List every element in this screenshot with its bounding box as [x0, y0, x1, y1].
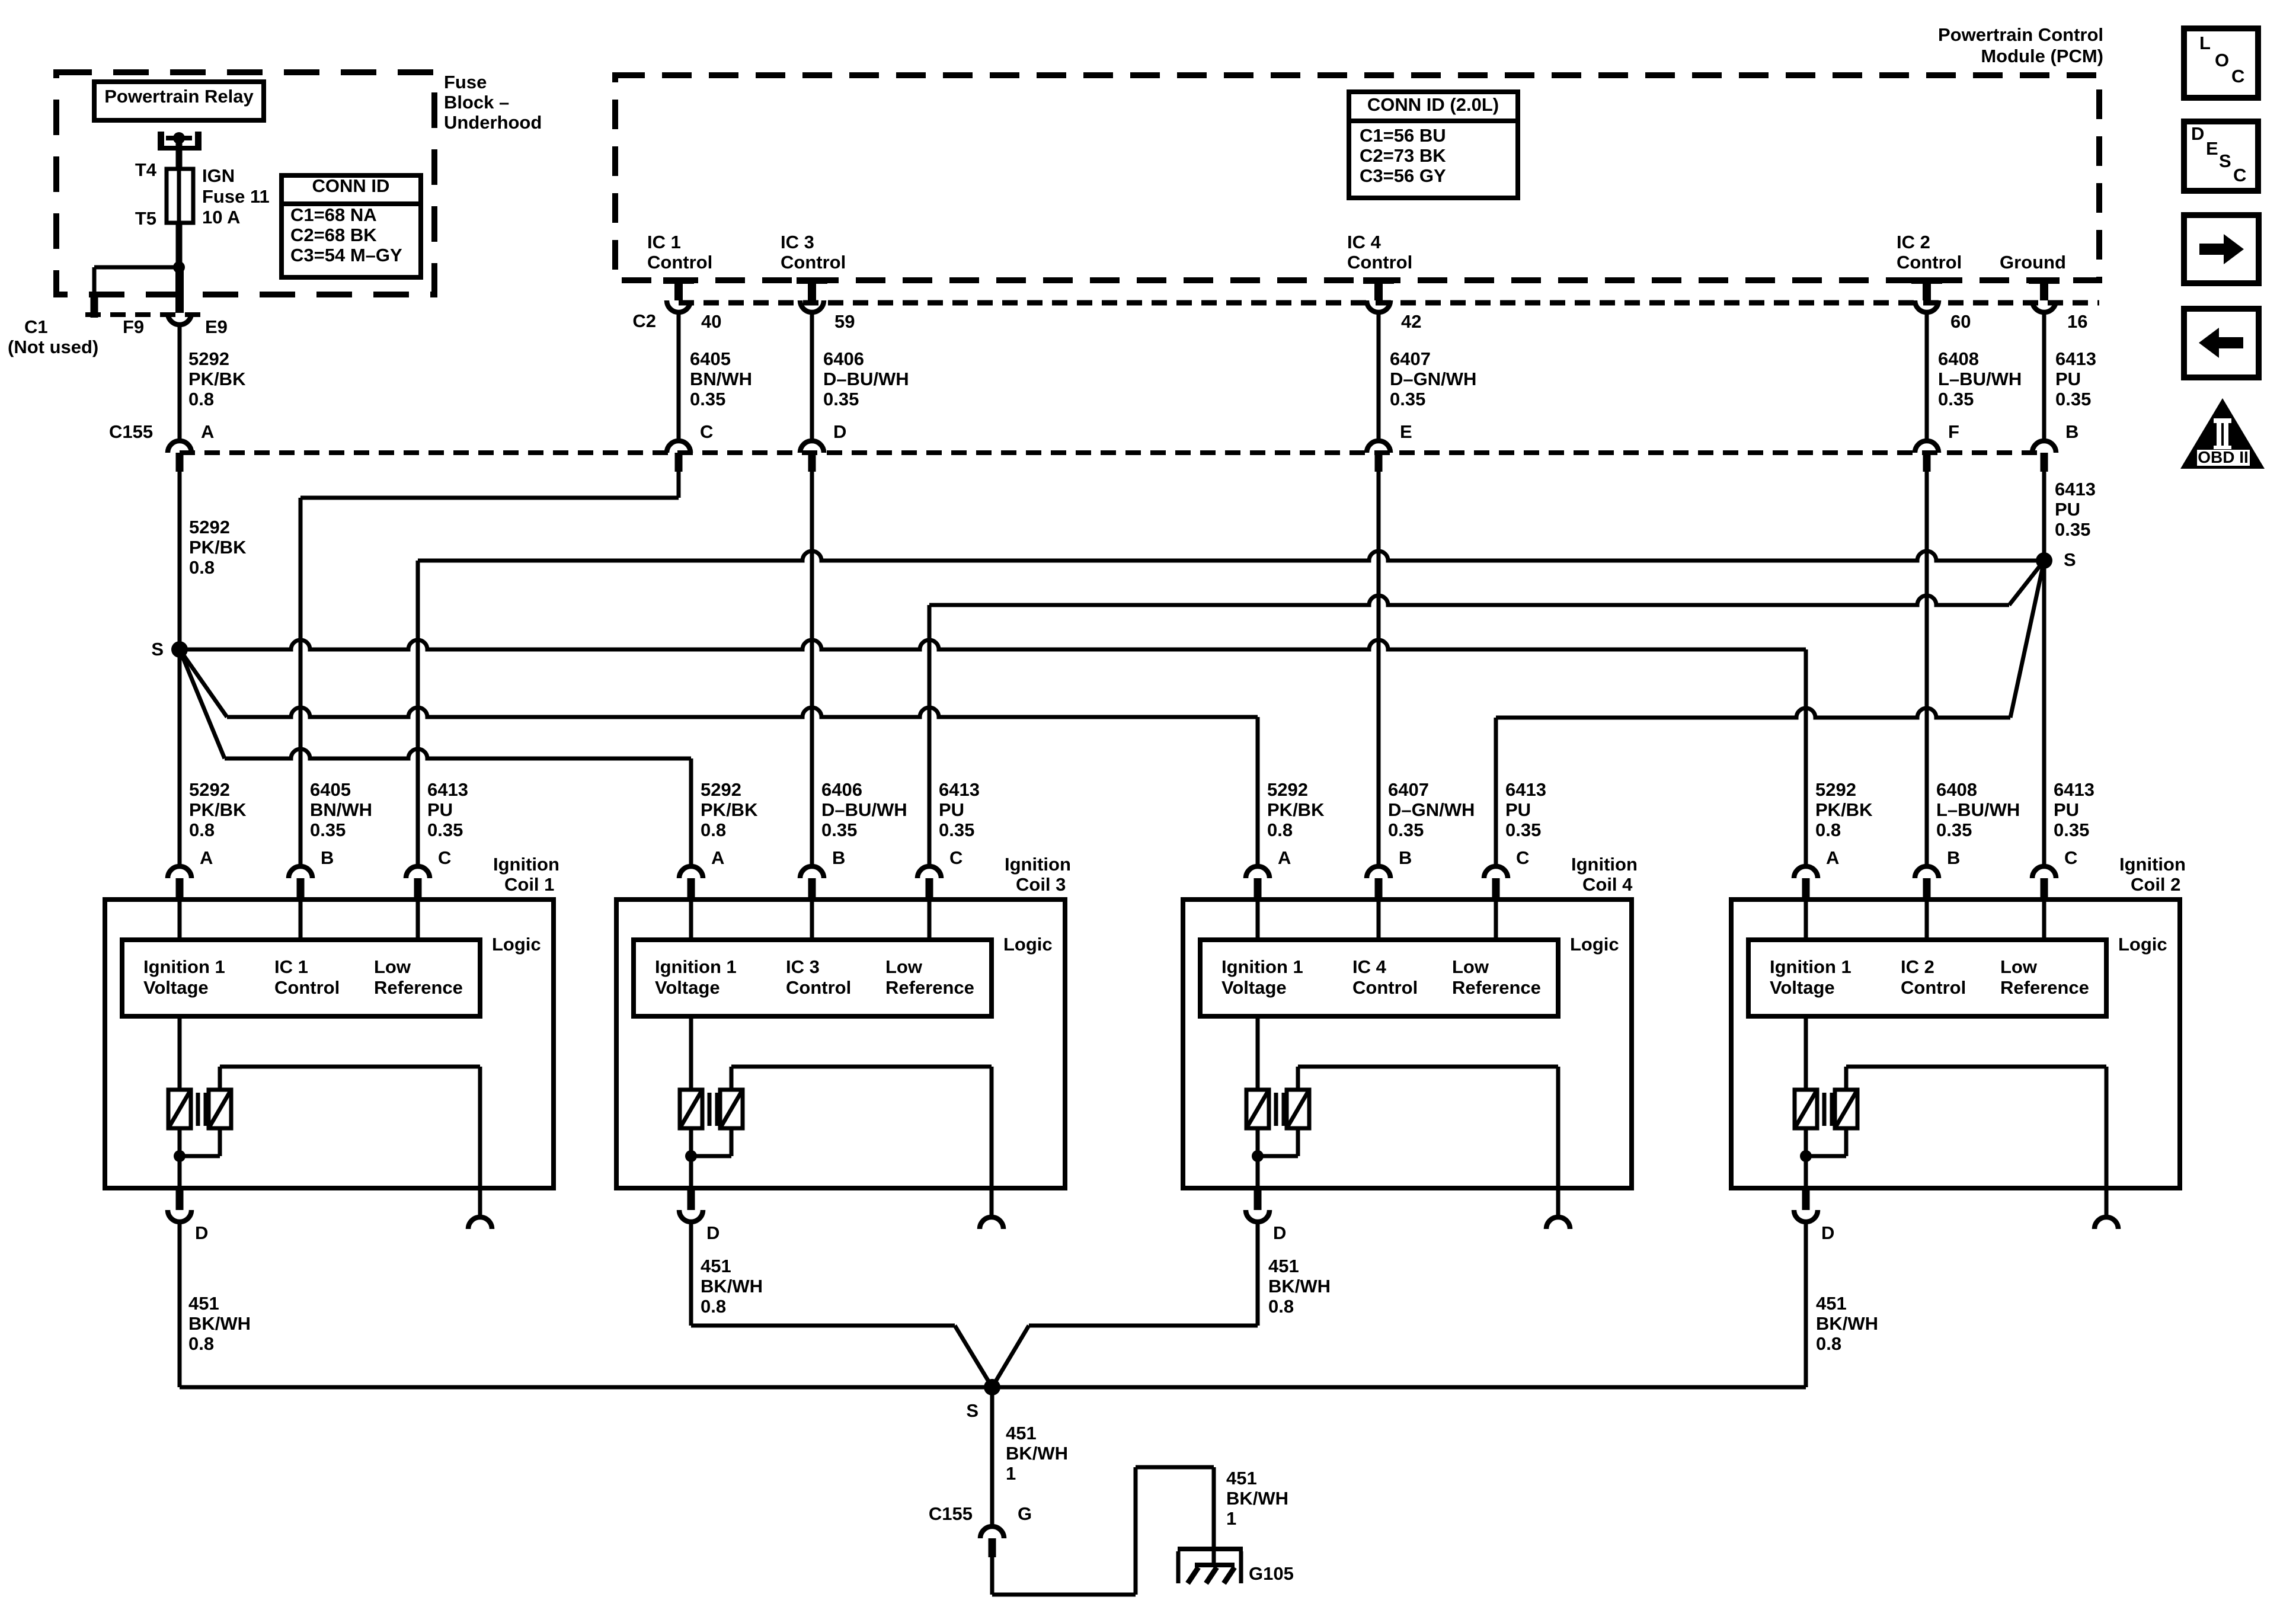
svg-text:S: S [2219, 151, 2231, 171]
svg-text:0.8: 0.8 [1267, 820, 1293, 840]
svg-text:Ignition: Ignition [2119, 854, 2186, 875]
svg-text:Ignition: Ignition [493, 854, 559, 875]
svg-text:PU: PU [939, 799, 964, 820]
svg-text:Ignition 1: Ignition 1 [655, 956, 737, 977]
svg-text:A: A [201, 421, 214, 442]
svg-text:B: B [1947, 847, 1960, 868]
svg-text:0.35: 0.35 [427, 820, 463, 840]
svg-text:6407: 6407 [1388, 779, 1429, 800]
svg-text:0.35: 0.35 [1505, 820, 1541, 840]
svg-text:6413: 6413 [2055, 348, 2096, 369]
svg-text:Logic: Logic [492, 934, 541, 955]
svg-text:D: D [1273, 1222, 1286, 1243]
svg-text:D: D [1821, 1222, 1834, 1243]
svg-text:PU: PU [1505, 799, 1531, 820]
svg-text:C: C [949, 847, 962, 868]
svg-text:Underhood: Underhood [444, 112, 542, 133]
svg-text:59: 59 [834, 311, 855, 332]
svg-text:Reference: Reference [1452, 977, 1541, 998]
svg-text:C2=68 BK: C2=68 BK [290, 225, 377, 245]
svg-text:Low: Low [2000, 956, 2038, 977]
svg-text:Coil 2: Coil 2 [2131, 874, 2180, 895]
svg-text:Logic: Logic [2118, 934, 2167, 955]
svg-text:60: 60 [1950, 311, 1971, 332]
svg-text:0.35: 0.35 [821, 820, 857, 840]
svg-text:C1: C1 [24, 316, 48, 337]
svg-text:Coil 3: Coil 3 [1016, 874, 1066, 895]
svg-text:C3=54 M–GY: C3=54 M–GY [290, 245, 402, 265]
svg-text:Reference: Reference [374, 977, 463, 998]
svg-text:Control: Control [1352, 977, 1418, 998]
svg-text:0.8: 0.8 [701, 820, 726, 840]
svg-text:Fuse 11: Fuse 11 [202, 186, 270, 207]
svg-text:PK/BK: PK/BK [1267, 799, 1325, 820]
svg-text:Voltage: Voltage [1770, 977, 1835, 998]
svg-text:0.35: 0.35 [690, 389, 725, 409]
svg-text:Control: Control [1347, 252, 1412, 273]
svg-text:0.8: 0.8 [189, 557, 215, 578]
svg-text:Ground: Ground [2000, 252, 2066, 273]
svg-text:D–GN/WH: D–GN/WH [1388, 799, 1475, 820]
svg-text:L–BU/WH: L–BU/WH [1936, 799, 2020, 820]
svg-text:6413: 6413 [427, 779, 468, 800]
svg-text:G: G [1018, 1503, 1032, 1524]
svg-text:D: D [2191, 123, 2204, 144]
svg-text:Low: Low [1452, 956, 1489, 977]
svg-text:OBD II: OBD II [2198, 448, 2249, 466]
svg-text:A: A [1826, 847, 1839, 868]
svg-text:451: 451 [1816, 1293, 1847, 1314]
svg-text:Control: Control [1901, 977, 1966, 998]
svg-text:6406: 6406 [821, 779, 862, 800]
svg-text:Fuse: Fuse [444, 72, 487, 92]
svg-text:1: 1 [1226, 1508, 1236, 1529]
svg-text:Voltage: Voltage [143, 977, 209, 998]
svg-text:Voltage: Voltage [1221, 977, 1287, 998]
svg-text:0.8: 0.8 [701, 1296, 726, 1317]
svg-text:BN/WH: BN/WH [690, 369, 752, 389]
svg-text:6406: 6406 [823, 348, 864, 369]
svg-text:T5: T5 [135, 208, 156, 229]
svg-text:BN/WH: BN/WH [310, 799, 372, 820]
svg-text:5292: 5292 [188, 348, 229, 369]
svg-text:Reference: Reference [885, 977, 974, 998]
svg-text:Control: Control [781, 252, 846, 273]
svg-text:0.8: 0.8 [189, 820, 215, 840]
svg-text:Logic: Logic [1003, 934, 1053, 955]
svg-text:PU: PU [2055, 499, 2080, 520]
svg-text:10 A: 10 A [202, 207, 240, 228]
svg-text:S: S [151, 639, 164, 660]
svg-text:(Not used): (Not used) [8, 337, 98, 357]
svg-text:5292: 5292 [189, 517, 230, 537]
svg-text:Reference: Reference [2000, 977, 2089, 998]
svg-text:0.35: 0.35 [2054, 820, 2089, 840]
svg-text:D–GN/WH: D–GN/WH [1390, 369, 1476, 389]
svg-text:451: 451 [1226, 1468, 1257, 1489]
svg-text:PK/BK: PK/BK [189, 537, 247, 558]
svg-text:0.8: 0.8 [1815, 820, 1841, 840]
svg-text:IC 1: IC 1 [274, 956, 308, 977]
svg-text:C1=68 NA: C1=68 NA [290, 204, 377, 225]
svg-text:IC 4: IC 4 [1352, 956, 1387, 977]
svg-text:CONN ID: CONN ID [312, 175, 390, 196]
svg-text:PU: PU [2054, 799, 2079, 820]
svg-text:A: A [1278, 847, 1291, 868]
svg-text:C: C [2231, 66, 2244, 87]
svg-text:C2=73 BK: C2=73 BK [1360, 145, 1446, 166]
svg-text:B: B [1399, 847, 1412, 868]
svg-text:IC 3: IC 3 [786, 956, 820, 977]
svg-text:C3=56 GY: C3=56 GY [1360, 165, 1446, 186]
svg-text:CONN ID (2.0L): CONN ID (2.0L) [1367, 94, 1499, 115]
svg-text:0.35: 0.35 [939, 820, 974, 840]
svg-text:BK/WH: BK/WH [701, 1276, 763, 1297]
svg-text:C: C [438, 847, 451, 868]
svg-text:Powertrain Control: Powertrain Control [1938, 24, 2103, 45]
svg-text:6413: 6413 [1505, 779, 1546, 800]
svg-text:Ignition 1: Ignition 1 [1221, 956, 1303, 977]
svg-text:Low: Low [885, 956, 923, 977]
svg-text:Coil 1: Coil 1 [504, 874, 554, 895]
svg-text:D: D [195, 1222, 208, 1243]
svg-text:5292: 5292 [1815, 779, 1856, 800]
svg-text:D–BU/WH: D–BU/WH [823, 369, 909, 389]
svg-text:6413: 6413 [939, 779, 980, 800]
svg-text:BK/WH: BK/WH [1226, 1488, 1288, 1509]
svg-text:F9: F9 [123, 316, 144, 337]
svg-text:C: C [2064, 847, 2077, 868]
svg-text:C: C [1516, 847, 1529, 868]
svg-text:D–BU/WH: D–BU/WH [821, 799, 907, 820]
svg-text:E: E [1400, 421, 1412, 442]
svg-text:6413: 6413 [2054, 779, 2094, 800]
svg-text:0.35: 0.35 [310, 820, 346, 840]
svg-text:Ignition: Ignition [1005, 854, 1071, 875]
svg-text:0.8: 0.8 [1268, 1296, 1294, 1317]
svg-text:T4: T4 [135, 159, 157, 180]
svg-text:A: A [200, 847, 213, 868]
svg-text:PK/BK: PK/BK [701, 799, 758, 820]
svg-text:0.35: 0.35 [2055, 519, 2090, 540]
svg-text:0.8: 0.8 [1816, 1333, 1841, 1354]
svg-text:IC 2: IC 2 [1897, 232, 1930, 252]
svg-text:IC 2: IC 2 [1901, 956, 1934, 977]
svg-text:IC 1: IC 1 [647, 232, 681, 252]
svg-text:BK/WH: BK/WH [188, 1313, 251, 1334]
svg-text:6407: 6407 [1390, 348, 1431, 369]
svg-text:Control: Control [647, 252, 712, 273]
svg-text:B: B [321, 847, 334, 868]
svg-text:Module (PCM): Module (PCM) [1981, 46, 2103, 66]
svg-text:PU: PU [2055, 369, 2081, 389]
svg-text:42: 42 [1401, 311, 1421, 332]
svg-text:6405: 6405 [310, 779, 351, 800]
svg-text:IC 4: IC 4 [1347, 232, 1382, 252]
svg-text:PK/BK: PK/BK [189, 799, 247, 820]
svg-text:B: B [832, 847, 845, 868]
svg-text:D: D [833, 421, 846, 442]
svg-text:C: C [2233, 165, 2246, 185]
svg-text:0.35: 0.35 [2055, 389, 2091, 409]
svg-text:BK/WH: BK/WH [1268, 1276, 1331, 1297]
svg-text:B: B [2065, 421, 2078, 442]
svg-text:Coil 4: Coil 4 [1582, 874, 1633, 895]
svg-text:1: 1 [1006, 1463, 1016, 1484]
svg-text:0.8: 0.8 [188, 1333, 214, 1354]
svg-text:IGN: IGN [202, 165, 235, 186]
svg-text:A: A [711, 847, 724, 868]
svg-text:Low: Low [374, 956, 411, 977]
svg-text:IC 3: IC 3 [781, 232, 814, 252]
svg-text:L–BU/WH: L–BU/WH [1938, 369, 2022, 389]
svg-text:G105: G105 [1249, 1563, 1294, 1584]
svg-text:O: O [2215, 50, 2229, 71]
svg-text:F: F [1948, 421, 1959, 442]
svg-text:E9: E9 [205, 316, 228, 337]
svg-text:Control: Control [1897, 252, 1962, 273]
svg-text:6405: 6405 [690, 348, 731, 369]
svg-text:0.35: 0.35 [1390, 389, 1425, 409]
svg-text:E: E [2206, 138, 2218, 159]
svg-text:5292: 5292 [189, 779, 230, 800]
svg-text:6408: 6408 [1938, 348, 1979, 369]
svg-text:D: D [706, 1222, 720, 1243]
svg-text:451: 451 [188, 1293, 219, 1314]
svg-text:Block –: Block – [444, 92, 509, 113]
svg-text:S: S [966, 1400, 978, 1421]
svg-text:0.8: 0.8 [188, 389, 214, 409]
svg-text:40: 40 [701, 311, 721, 332]
svg-text:BK/WH: BK/WH [1816, 1313, 1878, 1334]
svg-text:Ignition 1: Ignition 1 [143, 956, 225, 977]
svg-text:Control: Control [786, 977, 851, 998]
svg-text:5292: 5292 [701, 779, 741, 800]
svg-text:Control: Control [274, 977, 340, 998]
svg-text:C155: C155 [109, 421, 153, 442]
svg-text:0.35: 0.35 [1938, 389, 1974, 409]
svg-text:C155: C155 [929, 1503, 973, 1524]
svg-text:451: 451 [1268, 1256, 1299, 1276]
svg-text:C2: C2 [632, 311, 656, 331]
svg-text:C1=56 BU: C1=56 BU [1360, 125, 1446, 146]
svg-text:Powertrain Relay: Powertrain Relay [104, 86, 254, 107]
svg-text:L: L [2199, 33, 2211, 53]
svg-text:S: S [2064, 549, 2076, 570]
svg-text:BK/WH: BK/WH [1006, 1443, 1068, 1464]
svg-text:6413: 6413 [2055, 479, 2096, 500]
svg-text:Logic: Logic [1570, 934, 1619, 955]
svg-text:451: 451 [701, 1256, 731, 1276]
svg-text:5292: 5292 [1267, 779, 1308, 800]
svg-text:16: 16 [2067, 311, 2087, 332]
svg-text:Ignition 1: Ignition 1 [1770, 956, 1851, 977]
svg-text:PK/BK: PK/BK [1815, 799, 1873, 820]
svg-text:Voltage: Voltage [655, 977, 720, 998]
svg-text:451: 451 [1006, 1423, 1037, 1443]
svg-text:C: C [700, 421, 713, 442]
svg-text:0.35: 0.35 [1388, 820, 1424, 840]
svg-text:PU: PU [427, 799, 453, 820]
svg-text:PK/BK: PK/BK [188, 369, 246, 389]
svg-text:0.35: 0.35 [823, 389, 859, 409]
svg-text:Ignition: Ignition [1571, 854, 1638, 875]
svg-text:6408: 6408 [1936, 779, 1977, 800]
svg-text:0.35: 0.35 [1936, 820, 1972, 840]
